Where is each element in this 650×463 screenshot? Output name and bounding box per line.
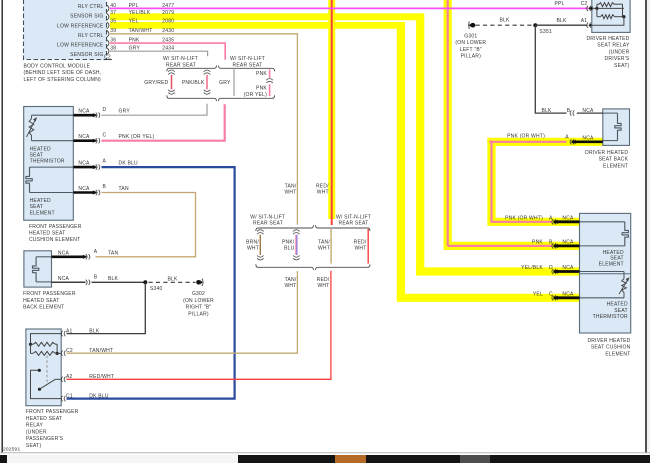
wire NCA cushion C (thick): [553, 296, 579, 299]
svg-text:(ON LOWER: (ON LOWER: [455, 40, 486, 46]
svg-text:NCA: NCA: [562, 239, 574, 245]
pin A connector of back element: [573, 139, 574, 144]
wire RED/WHT below splice to relay A2: [67, 271, 331, 380]
svg-text:PNK (OR WHT): PNK (OR WHT): [505, 215, 543, 221]
brace top left section: [167, 66, 217, 72]
wire BLK S351 to relay A1: [535, 24, 587, 26]
wire NCA passenger back A (thick): [52, 255, 86, 258]
window bottom separator: [0, 452, 650, 454]
svg-text:35: 35: [110, 19, 116, 25]
wire YEL highlight vertical x401: [397, 22, 405, 302]
wire BLK S340 down to relay A1: [67, 282, 146, 333]
passenger relay internal: switch blade: [38, 388, 41, 391]
svg-text:G301: G301: [464, 33, 477, 39]
svg-text:NCA: NCA: [78, 109, 90, 115]
wire PNK (OR WHT) core vertical x447: [447, 0, 449, 246]
passenger relay internal: A1 wire to coil: [31, 334, 62, 345]
wire NCA cushion B (thick): [553, 244, 579, 247]
taskbar: [0, 455, 650, 463]
BCM pin 38 connector: [107, 48, 109, 55]
svg-text:HEATED SEAT: HEATED SEAT: [29, 230, 65, 236]
wire YEL/BLK highlight to pin D: [416, 267, 579, 275]
svg-text:RLY CTRL: RLY CTRL: [78, 4, 103, 10]
wire YEL 2080 highlight band horizontal: [110, 22, 404, 29]
svg-text:TAN/: TAN/: [285, 277, 297, 283]
driver heated seat back element box: [603, 109, 630, 145]
svg-text:ELEMENT: ELEMENT: [599, 262, 624, 268]
svg-text:(UNDER: (UNDER: [609, 49, 630, 55]
svg-text:HEATED: HEATED: [30, 198, 51, 204]
svg-text:SEAT: SEAT: [614, 308, 628, 314]
wire YEL/BLK 2079 highlight band horizontal: [110, 13, 424, 20]
passenger relay internal: actuator dashed: [46, 356, 48, 386]
brace top center-left: [256, 225, 314, 231]
wire NCA cushion D (thick): [553, 270, 579, 273]
brace bottom left section: [167, 95, 217, 101]
svg-text:SEAT RELAY: SEAT RELAY: [597, 43, 630, 49]
svg-text:W/ SIT-N-LIFT: W/ SIT-N-LIFT: [336, 214, 371, 220]
svg-text:A1: A1: [581, 18, 588, 24]
svg-text:G302: G302: [192, 291, 205, 297]
svg-text:PNK: PNK: [532, 239, 543, 245]
splice S351: [533, 23, 537, 27]
svg-text:BACK ELEMENT: BACK ELEMENT: [23, 305, 64, 311]
svg-text:LOW REFERENCE: LOW REFERENCE: [57, 43, 104, 49]
svg-text:FRONT PASSENGER: FRONT PASSENGER: [26, 409, 79, 415]
svg-text:HEATED: HEATED: [30, 146, 51, 152]
BCM pin 36 connector: [107, 40, 109, 47]
wire PNK(OR WHT) highlight vertical x491: [487, 138, 495, 222]
wire TAN cushion B to back element A: [96, 193, 196, 257]
brace bottom right section: [219, 95, 275, 101]
svg-text:SEAT BACK: SEAT BACK: [599, 157, 629, 163]
back element heating element symbol: [615, 113, 621, 141]
svg-text:W/ SIT-N-LIFT: W/ SIT-N-LIFT: [230, 56, 265, 62]
svg-text:PNK (OR WHT): PNK (OR WHT): [507, 133, 545, 139]
window left border: [1, 0, 3, 453]
svg-text:A2: A2: [66, 374, 73, 380]
wire DK BLU cushion A to relay C1: [67, 167, 235, 399]
svg-text:BLK: BLK: [167, 276, 178, 282]
wire YEL highlight to pin C: [397, 294, 580, 302]
pin C2 connector of passenger relay: [64, 351, 65, 356]
svg-text:HEATED SEAT: HEATED SEAT: [23, 298, 59, 304]
wire GRY below splice to cushion D pin: [102, 104, 208, 115]
passenger relay internal: coil resistor top: [33, 342, 56, 346]
wire PNK(OR WHT) highlight vertical x447: [444, 0, 452, 246]
wire GRY 2434 from pin 38: [110, 51, 208, 56]
svg-text:WHT: WHT: [247, 246, 259, 252]
BCM pin 37 connector: [107, 14, 109, 21]
splice wire PNK/BLU with inline connectors: [293, 230, 300, 232]
svg-text:NCA: NCA: [78, 134, 90, 140]
svg-text:PILLAR): PILLAR): [461, 54, 482, 60]
svg-text:WHT: WHT: [318, 246, 330, 252]
svg-text:(BEHIND LEFT SIDE OF DASH,: (BEHIND LEFT SIDE OF DASH,: [24, 70, 102, 76]
wire PNK(OR WHT) highlight seat back row: [487, 138, 602, 146]
svg-text:DRIVER HEATED: DRIVER HEATED: [585, 150, 628, 156]
svg-text:SEAT): SEAT): [26, 443, 42, 449]
svg-text:PILLAR): PILLAR): [188, 311, 209, 317]
wire PNK below splice to cushion C pin: [102, 104, 225, 141]
window right border: [645, 0, 647, 453]
brace bottom center-left: [256, 264, 314, 270]
driver relay internal: A1 feed: [592, 17, 624, 26]
svg-text:CUSHION ELEMENT: CUSHION ELEMENT: [29, 237, 80, 243]
svg-text:RELAY: RELAY: [26, 423, 44, 429]
svg-text:BLU: BLU: [284, 246, 295, 252]
svg-text:A: A: [565, 135, 569, 141]
svg-text:REAR SEAT: REAR SEAT: [253, 221, 283, 227]
svg-text:(UNDER: (UNDER: [26, 429, 47, 435]
svg-text:REAR SEAT: REAR SEAT: [233, 63, 263, 69]
splice wire TAN/WHT pass-through: [330, 229, 332, 264]
svg-text:SEAT: SEAT: [30, 204, 44, 210]
pin D connector of passenger cushion: [96, 113, 97, 118]
svg-text:BRN/: BRN/: [246, 239, 259, 245]
driver relay internal: coil resistor top: [599, 3, 615, 7]
passenger relay internal: coil resistor bottom: [33, 351, 56, 355]
svg-text:W/ SIT-N-LIFT: W/ SIT-N-LIFT: [250, 214, 285, 220]
svg-text:S340: S340: [150, 286, 163, 292]
wire NCA passenger back B: [52, 281, 86, 283]
svg-text:YEL: YEL: [533, 291, 543, 297]
body control module U1 (BCM) box: [24, 0, 107, 60]
svg-text:REAR SEAT: REAR SEAT: [339, 221, 369, 227]
brace bottom center-right: [316, 264, 371, 270]
svg-text:NCA: NCA: [582, 135, 594, 141]
svg-text:HEATED SEAT: HEATED SEAT: [26, 416, 62, 422]
pin B connector of cushion element: [555, 243, 556, 248]
driver heated seat relay U2 box: [592, 0, 630, 32]
wire PPL 2477: [110, 7, 589, 9]
pin C2 connector of driver relay: [590, 6, 591, 11]
svg-text:RED/: RED/: [354, 239, 367, 245]
svg-text:TAN/WHT: TAN/WHT: [89, 348, 113, 354]
driver relay internal: coil resistor bottom: [601, 15, 615, 19]
svg-text:TAN: TAN: [108, 250, 118, 256]
wire NCA passenger cushion B (thick): [73, 191, 95, 194]
pin A2 connector of passenger relay: [64, 377, 65, 382]
svg-text:BLK: BLK: [108, 276, 119, 282]
svg-text:PNK (OR YEL): PNK (OR YEL): [119, 134, 155, 140]
pin A connector of cushion element: [555, 219, 556, 224]
pin B connector of back element: [573, 110, 574, 115]
svg-text:ELEMENT: ELEMENT: [605, 351, 630, 357]
wire BLK passenger back B to S340: [92, 281, 146, 283]
splice wire GRY/RED with inline connectors: [168, 70, 175, 72]
svg-text:WHT: WHT: [317, 283, 329, 289]
svg-text:S351: S351: [539, 29, 552, 35]
svg-text:LEFT OF STEERING COLUMN): LEFT OF STEERING COLUMN): [24, 77, 102, 83]
svg-text:PPL: PPL: [554, 1, 564, 7]
svg-text:DK BLU: DK BLU: [119, 161, 139, 167]
passenger cushion heating element symbol: [26, 167, 32, 192]
wire NCA passenger cushion D (thick): [73, 114, 95, 117]
wire PNK 2435 from pin 36: [110, 43, 225, 60]
pin A1 connector of passenger relay: [64, 331, 65, 336]
wire PNK (OR WHT) core vertical x491: [492, 140, 553, 221]
svg-text:YEL/BLK: YEL/BLK: [129, 10, 151, 16]
svg-text:HEATED: HEATED: [607, 302, 628, 308]
svg-text:LEFT "B": LEFT "B": [460, 47, 482, 53]
svg-text:BLK: BLK: [556, 18, 567, 24]
svg-text:37: 37: [110, 10, 116, 16]
svg-text:PASSENGER'S: PASSENGER'S: [26, 436, 64, 442]
svg-text:GRY: GRY: [119, 109, 131, 115]
svg-text:FRONT PASSENGER: FRONT PASSENGER: [29, 224, 82, 230]
cushion element internal divider: [580, 273, 631, 275]
svg-text:THERMISTOR: THERMISTOR: [593, 314, 628, 320]
wire TAN/WHT vertical below splice to relay C2: [67, 271, 298, 353]
svg-text:C1: C1: [66, 393, 73, 399]
svg-text:ELEMENT: ELEMENT: [30, 210, 55, 216]
svg-text:A: A: [94, 249, 98, 255]
svg-text:2080: 2080: [162, 19, 174, 25]
BCM pin 35 connector: [107, 22, 109, 29]
wire PNK(OR WHT) highlight cushion A row: [487, 218, 579, 226]
splice wire PNK/BLK with inline connectors: [204, 70, 211, 72]
svg-text:RLY CTRL: RLY CTRL: [78, 33, 103, 39]
svg-text:RED/: RED/: [316, 184, 329, 190]
svg-text:C2: C2: [66, 348, 73, 354]
svg-text:RIGHT "B": RIGHT "B": [186, 305, 212, 311]
svg-text:BLK: BLK: [541, 108, 552, 114]
svg-text:TAN: TAN: [119, 186, 129, 192]
svg-text:D: D: [103, 107, 107, 113]
front passenger heated seat relay box: [26, 329, 61, 406]
driver relay internal: node at C2: [592, 7, 624, 9]
cushion thermistor symbol: [622, 279, 627, 293]
wire PNK core to pin B: [448, 245, 553, 247]
svg-text:(OR YEL): (OR YEL): [244, 92, 267, 98]
svg-text:B: B: [94, 275, 98, 281]
svg-text:LOW REFERENCE: LOW REFERENCE: [57, 23, 104, 29]
wire NCA back element B: [577, 112, 603, 114]
svg-text:(ON LOWER: (ON LOWER: [183, 298, 214, 304]
svg-text:BLK: BLK: [89, 328, 100, 334]
svg-text:YEL: YEL: [129, 19, 139, 25]
svg-text:GRY/RED: GRY/RED: [144, 80, 168, 86]
pin A1 connector of driver relay: [590, 23, 591, 28]
svg-text:NCA: NCA: [78, 161, 90, 167]
svg-text:PNK/BLK: PNK/BLK: [182, 80, 205, 86]
wire RED/WHT highlight vertical x330: [328, 0, 335, 219]
ground G301: [471, 23, 476, 28]
svg-text:SEAT): SEAT): [614, 63, 630, 69]
svg-text:DRIVER HEATED: DRIVER HEATED: [586, 36, 629, 42]
pin B connector of passenger back element: [86, 280, 87, 285]
svg-text:THERMISTOR: THERMISTOR: [30, 159, 65, 165]
svg-text:TAN/: TAN/: [285, 184, 297, 190]
pin A connector of passenger back element: [86, 254, 87, 259]
wire RED/WHT vertical (from top): [331, 0, 333, 225]
cushion heating element symbol: [622, 222, 628, 246]
pin B connector of passenger cushion: [96, 190, 97, 195]
pin C1 connector of passenger relay: [64, 396, 65, 401]
wire BLK S351 down to seat back element B: [535, 25, 566, 113]
svg-text:RED/: RED/: [317, 277, 330, 283]
svg-text:YEL/BLK: YEL/BLK: [521, 265, 543, 271]
wire NCA cushion A (thick): [553, 220, 579, 223]
pin A connector of passenger cushion: [96, 164, 97, 169]
passenger cushion thermistor symbol: [29, 119, 34, 136]
splice S340: [143, 280, 147, 284]
wire YEL/BLK highlight vertical x420: [416, 13, 424, 275]
svg-text:NCA: NCA: [562, 215, 574, 221]
svg-text:A: A: [103, 159, 107, 165]
wire PNK highlight to pin B: [444, 242, 580, 250]
wire TAN/WHT 2430 horizontal: [110, 34, 297, 225]
brace top center-right: [316, 225, 371, 231]
svg-text:DRIVER HEATED: DRIVER HEATED: [587, 338, 630, 344]
svg-text:TAN/: TAN/: [318, 239, 330, 245]
splice wire GRY pass-through: [233, 69, 235, 96]
passenger relay internal: C1 wire to contact: [31, 370, 62, 398]
splice wire BRN/WHT with inline connectors: [257, 230, 264, 232]
svg-text:BLK: BLK: [499, 18, 510, 24]
svg-text:DRIVER'S: DRIVER'S: [605, 56, 630, 62]
svg-text:SENSOR SIG: SENSOR SIG: [70, 14, 103, 20]
splice wire PNK with mid connector: [269, 69, 271, 78]
splice wire RED/WHT pass-through: [367, 229, 369, 264]
svg-text:BODY CONTROL MODULE: BODY CONTROL MODULE: [24, 63, 91, 69]
svg-text:C2: C2: [581, 1, 588, 7]
wire NCA back element A (thick): [572, 141, 603, 144]
svg-text:C: C: [103, 132, 107, 138]
svg-text:WHT: WHT: [284, 190, 296, 196]
svg-text:NCA: NCA: [58, 276, 70, 282]
svg-text:SENSOR SIG: SENSOR SIG: [70, 52, 103, 58]
svg-text:A1: A1: [66, 328, 73, 334]
BCM pin 40 connector: [107, 5, 109, 12]
svg-text:GRY: GRY: [219, 80, 231, 86]
wire PNK (OR WHT) core seat back row: [489, 141, 566, 143]
svg-text:REAR SEAT: REAR SEAT: [166, 63, 196, 69]
svg-text:ELEMENT: ELEMENT: [603, 163, 628, 169]
svg-text:PNK: PNK: [256, 71, 267, 77]
svg-text:SEAT: SEAT: [30, 153, 44, 159]
pin C connector of passenger cushion: [96, 138, 97, 143]
svg-text:202591: 202591: [3, 447, 20, 453]
svg-text:NCA: NCA: [562, 265, 574, 271]
svg-text:WHT: WHT: [284, 283, 296, 289]
svg-text:NCA: NCA: [58, 250, 70, 256]
svg-text:B: B: [103, 184, 107, 190]
front passenger heated seat back element box: [24, 251, 52, 287]
BCM pin 39 connector: [107, 31, 109, 38]
svg-text:WHT: WHT: [354, 246, 366, 252]
wire BLK dashed S340 to G302: [149, 281, 196, 283]
svg-text:RED/WHT: RED/WHT: [89, 374, 114, 380]
svg-text:NCA: NCA: [78, 186, 90, 192]
ground G302: [196, 280, 201, 285]
svg-text:W/ SIT-N-LIFT: W/ SIT-N-LIFT: [163, 56, 198, 62]
brace top right section: [219, 66, 275, 72]
svg-text:PNK/: PNK/: [282, 239, 295, 245]
driver heated seat cushion element box: [580, 213, 631, 333]
pin D connector of cushion element: [555, 269, 556, 274]
svg-text:2079: 2079: [162, 10, 174, 16]
passenger back heating element symbol: [33, 257, 39, 282]
wire NCA passenger cushion C (thick): [73, 139, 95, 142]
svg-text:SEAT CUSHION: SEAT CUSHION: [591, 345, 631, 351]
wire BLK dashed S351 to G301: [476, 24, 534, 26]
svg-text:NCA: NCA: [562, 291, 574, 297]
wire NCA passenger cushion A (thick): [73, 166, 95, 169]
svg-text:PNK: PNK: [256, 85, 267, 91]
svg-text:WHT: WHT: [317, 190, 329, 196]
pin C connector of cushion element: [555, 295, 556, 300]
svg-text:FRONT PASSENGER: FRONT PASSENGER: [23, 291, 76, 297]
front passenger heated seat cushion element box: [24, 107, 74, 221]
svg-text:DK BLU: DK BLU: [89, 393, 109, 399]
